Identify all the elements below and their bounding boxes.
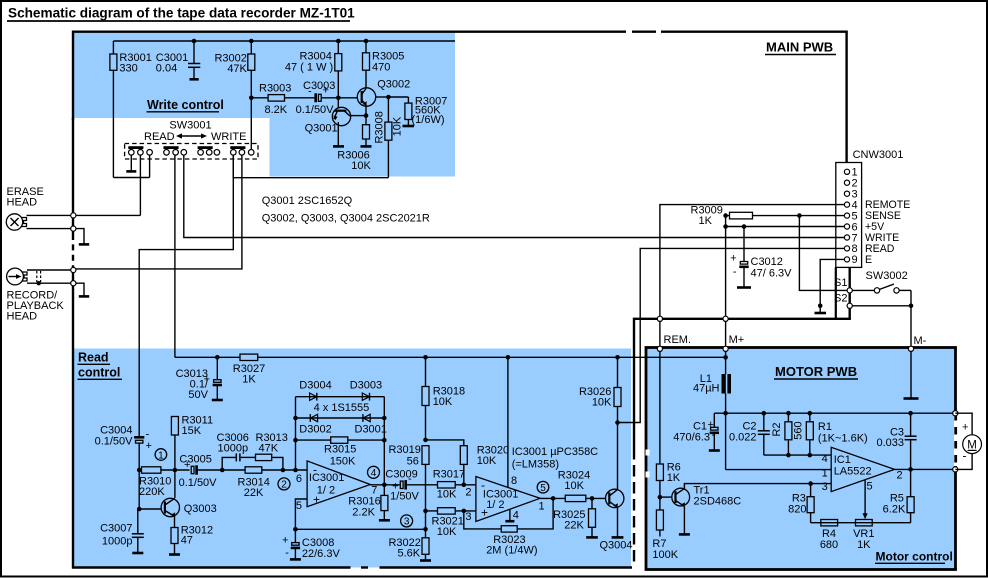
svg-text:C3005: C3005 (179, 454, 211, 466)
resistor R3016 with ground stub (348, 485, 390, 521)
svg-text:-: - (712, 429, 716, 441)
ground stub for erase head return (76, 229, 89, 245)
resistor R3025 with ground (553, 498, 598, 537)
svg-text:R3017: R3017 (433, 469, 465, 481)
wire R3008 bottom to SW3001 G4 (233, 155, 388, 178)
svg-text:2: 2 (281, 480, 287, 491)
svg-text:5: 5 (296, 500, 302, 512)
svg-text:-: - (285, 547, 289, 559)
wire erase head hot to SW3001 (76, 214, 140, 216)
junction S1 tap on SENSE wire (797, 213, 847, 290)
main pwb outline top edge with dashed break (73, 32, 847, 163)
M+ vertical from SENSE/+5V junctions down into motor pwb (723, 213, 744, 374)
diode D3002 (296, 414, 385, 435)
svg-text:220K: 220K (139, 486, 165, 498)
resistor R3026 (579, 357, 621, 422)
svg-text:1K: 1K (242, 374, 256, 386)
svg-text:8: 8 (511, 475, 517, 487)
diode feedback network left vertical (293, 397, 298, 473)
svg-text:control: control (78, 366, 120, 380)
svg-text:22/6.3V: 22/6.3V (302, 548, 341, 560)
resistor R3004 (285, 39, 342, 108)
capacitor C3009 (385, 469, 437, 503)
svg-text:5: 5 (867, 481, 873, 493)
svg-text:R3008: R3008 (373, 111, 385, 143)
motor pwb border box (646, 348, 956, 570)
svg-text:CNW3001: CNW3001 (853, 149, 904, 161)
svg-text:47 ( 1 W ): 47 ( 1 W ) (285, 62, 333, 74)
svg-text:+: + (323, 85, 329, 97)
M+ wire from L1 to motor rail and IC1 pin 1 (723, 394, 831, 470)
resistor R3020 (460, 445, 509, 485)
M- vertical wire into motor pwb to ground (904, 290, 927, 398)
svg-text:47µH: 47µH (693, 383, 720, 395)
resistor R3010 (137, 467, 190, 498)
ground stub under SW3001 contact 1a (126, 155, 136, 171)
svg-text:1: 1 (539, 501, 545, 513)
svg-text:1K: 1K (667, 472, 681, 484)
capacitor C3013 (176, 355, 223, 401)
node X junction R3018/R3019/R3020 (423, 438, 464, 446)
capacitor C3 (876, 411, 916, 469)
resistor R3017 (433, 469, 476, 501)
svg-text:820: 820 (788, 504, 806, 516)
switch SW3002 (852, 270, 911, 293)
title (7, 5, 355, 21)
record head shielded cable marks (37, 271, 41, 285)
node 5 circled (537, 481, 549, 494)
pin 8 supply wire into IC3001b (506, 355, 518, 487)
capacitor C3004 (95, 425, 152, 471)
node 3 circled (401, 515, 413, 528)
svg-text:47: 47 (181, 535, 193, 547)
S1 S2 connector stubs below CNW3001 (834, 267, 852, 319)
capacitor C1 (673, 413, 720, 450)
wire C3004 branch down to Q3003 base (137, 470, 142, 511)
diode D3001 (355, 414, 387, 435)
junction R3011/Q3003 collector on input wire (173, 435, 178, 498)
svg-text:LA5522: LA5522 (834, 466, 872, 478)
svg-text:+: + (730, 253, 736, 265)
wire pin4 REMOTE to REM vertical (660, 205, 845, 464)
svg-text:150K: 150K (330, 456, 356, 468)
resistor R3012 (169, 516, 213, 554)
capacitor C3001 (156, 39, 201, 80)
svg-text:D3001: D3001 (355, 424, 387, 436)
resistor R3014 (222, 467, 307, 499)
node C3003/R3004/Q3001/Q3002 (336, 96, 358, 101)
diode D3003 (350, 380, 382, 401)
wire pin8 READ down to R3026 node (618, 248, 845, 422)
resistor R3022 with ground (388, 511, 431, 561)
resistor R3009 on SENSE wire (691, 205, 845, 228)
svg-text:R1: R1 (818, 421, 832, 433)
resistor R3011 (171, 415, 213, 438)
svg-text:2: 2 (897, 470, 903, 482)
SW3001 contact group 1 (128, 148, 152, 156)
svg-text:-: - (308, 86, 312, 98)
svg-text:4 x 1S1555: 4 x 1S1555 (314, 402, 370, 414)
svg-text:D3002: D3002 (299, 424, 331, 436)
svg-text:Schematic diagram of the tape: Schematic diagram of the tape data recor… (8, 5, 355, 20)
resistor R3021 (423, 508, 476, 538)
svg-text:1/ 2: 1/ 2 (486, 499, 504, 511)
interconnect thick bus from CNW3001 down and across to bottom (634, 267, 850, 567)
main pwb outline left edge (solid/dashed through head connectors) (72, 118, 74, 569)
node 2 circled (278, 478, 290, 491)
svg-text:MOTOR PWB: MOTOR PWB (775, 364, 857, 379)
ground stub for record head return (76, 283, 89, 296)
motor supply rail (714, 411, 958, 416)
read control heading (78, 351, 123, 380)
+B top rail of write block (113, 40, 455, 42)
svg-text:3: 3 (822, 481, 828, 493)
capacitor C3012 (730, 227, 792, 288)
svg-text:1: 1 (158, 450, 164, 461)
svg-text:(1K~1.6K): (1K~1.6K) (818, 433, 868, 445)
wire pin7 WRITE long wire to SW3001 (184, 155, 845, 238)
svg-text:4: 4 (513, 510, 519, 522)
+5V rail of read block (175, 356, 726, 358)
svg-text:10K: 10K (437, 489, 457, 501)
svg-text:HEAD: HEAD (7, 197, 38, 209)
bottom wire R3 to R5 through R4 and VR1 (811, 522, 911, 524)
wire Tr1 collector to IC1 pin 3 (684, 481, 831, 488)
record head symbol (7, 268, 72, 322)
pin 5 wire and C3008 branch (293, 499, 426, 532)
svg-text:+: + (962, 422, 968, 434)
CNW3001 pin circles and numbers 1-9 (844, 167, 857, 267)
pin 4 ground stub of IC3001b (505, 510, 518, 522)
svg-text:(=LM358): (=LM358) (512, 459, 559, 471)
double arrow between READ and WRITE (176, 133, 207, 138)
resistor R3005 (363, 39, 405, 88)
svg-text:-: - (146, 429, 150, 441)
node 4 circled (368, 466, 380, 479)
svg-text:C3009: C3009 (385, 469, 417, 481)
svg-text:S2: S2 (834, 292, 847, 304)
svg-text:1000p: 1000p (102, 535, 133, 547)
svg-text:6.2K: 6.2K (883, 504, 906, 516)
svg-text:0.04: 0.04 (156, 63, 177, 75)
capacitor C3005 (179, 454, 223, 490)
svg-text:1K: 1K (699, 215, 713, 227)
SW3001 contact group 3 (198, 148, 220, 156)
diode feedback network right vertical (382, 397, 387, 487)
svg-text:(1/6W): (1/6W) (412, 114, 445, 126)
inductor L1 (693, 373, 731, 395)
svg-text:1: 1 (822, 468, 828, 480)
svg-text:22K: 22K (564, 520, 584, 532)
svg-text:56: 56 (407, 456, 419, 468)
svg-text:Q3002: Q3002 (377, 79, 410, 91)
resistor R6 (656, 462, 680, 511)
IC3001 device name note (512, 446, 598, 471)
output wire IC3001b pin 1 (539, 496, 566, 512)
svg-text:SW3002: SW3002 (866, 270, 908, 282)
resistor R3018 (422, 355, 465, 440)
resistor R3002 (214, 39, 254, 150)
transistor Q3004 (600, 489, 633, 551)
CNW3001 pin name labels (865, 199, 910, 266)
resistor R3027 in rail (233, 354, 265, 385)
resistor R1 (806, 411, 867, 455)
svg-text:IC3001: IC3001 (309, 472, 344, 484)
svg-text:5: 5 (540, 483, 546, 494)
wire SW3001 4b to record head (76, 155, 242, 269)
svg-text:Q3004: Q3004 (600, 540, 633, 552)
switch SW3001 dashed box (125, 144, 258, 160)
svg-text:15K: 15K (182, 425, 202, 437)
main pwb outline bottom edge (read region bottom, partly dashed) (72, 566, 632, 568)
diode D3004 (296, 380, 385, 401)
capacitor C3006 and resistor R3013 parallel branch (217, 432, 288, 470)
svg-text:M+: M+ (729, 334, 745, 346)
capacitor C3003 (296, 80, 339, 116)
svg-text:-: - (963, 449, 967, 463)
node C3006/R3014 split (220, 468, 225, 473)
resistor R3003 (251, 83, 314, 117)
Q3004 collector to READ node and R3026 (615, 355, 620, 490)
wire SW3001 2b down to read amp input chain (174, 155, 176, 357)
svg-text:-: - (733, 266, 737, 278)
svg-text:Motor control: Motor control (876, 550, 953, 564)
svg-text:2.2K: 2.2K (352, 507, 375, 519)
svg-text:5.6K: 5.6K (397, 548, 420, 560)
motor pwb blue region (646, 348, 956, 570)
svg-text:MAIN PWB: MAIN PWB (766, 40, 833, 55)
svg-text:Q3003: Q3003 (184, 503, 217, 515)
erase head connector circles on pwb edge (71, 213, 76, 231)
svg-text:8.2K: 8.2K (265, 104, 288, 116)
svg-text:Q3001: Q3001 (305, 123, 338, 135)
svg-text:10K: 10K (433, 396, 453, 408)
read control blue region (73, 349, 632, 568)
svg-text:1/ 2: 1/ 2 (317, 485, 335, 497)
svg-text:3: 3 (465, 511, 471, 523)
svg-text:47K: 47K (259, 443, 279, 455)
transistor type note text (262, 195, 430, 224)
capacitor C3008 (282, 529, 341, 560)
svg-text:3: 3 (404, 517, 410, 528)
wire SW3001 4a jog to C3004 branch (139, 155, 233, 436)
op-amp IC3001 second half (465, 477, 540, 524)
svg-text:C3007: C3007 (100, 523, 132, 535)
resistor R3019 (388, 444, 429, 511)
svg-text:4: 4 (371, 468, 377, 479)
svg-text:330: 330 (119, 63, 137, 75)
resistor R2 with rotated labels (771, 411, 805, 455)
svg-text:0.033: 0.033 (876, 437, 904, 449)
svg-text:D3003: D3003 (350, 380, 382, 392)
MOTOR PWB label (774, 364, 858, 379)
IC1 output pin 2 wire (895, 467, 958, 472)
svg-text:WRITE: WRITE (211, 131, 246, 143)
svg-text:680: 680 (820, 539, 838, 551)
output wire of IC3001a with node 7 (370, 485, 400, 497)
svg-text:0.1/50V: 0.1/50V (296, 104, 335, 116)
svg-text:6: 6 (296, 473, 302, 485)
write control heading (147, 98, 224, 112)
svg-text:50V: 50V (188, 389, 208, 401)
svg-text:E: E (865, 254, 872, 266)
wire C2/R2/R1 bottoms to IC1 pin 4 (764, 453, 831, 458)
svg-text:M-: M- (914, 335, 927, 347)
transistor Q3003 (138, 498, 217, 516)
potentiometer VR1 with wiper from IC1 pin 5 (853, 480, 874, 551)
record head connector circles on pwb edge (71, 267, 76, 285)
resistor R3 (788, 484, 814, 523)
svg-text:HEAD: HEAD (7, 311, 38, 323)
resistor R3008 vertical with rotated labels (373, 97, 403, 178)
svg-text:R3015: R3015 (324, 444, 356, 456)
Q3004 emitter to board edge (612, 507, 624, 537)
motor M with connections (955, 413, 981, 469)
svg-text:C3012: C3012 (751, 256, 783, 268)
transistor Q3002 (357, 79, 410, 116)
svg-text:0.022: 0.022 (729, 432, 757, 444)
svg-text:10K: 10K (592, 397, 612, 409)
svg-text:S1: S1 (834, 277, 847, 289)
resistor R3006 (337, 113, 371, 172)
svg-text:10K: 10K (564, 480, 584, 492)
transistor Tr1 (662, 485, 741, 508)
resistor R3024 (558, 470, 606, 502)
erase head symbol (6, 186, 71, 230)
svg-text:R3003: R3003 (259, 83, 291, 95)
Tr1 emitter ground stub (679, 506, 690, 534)
SW3001 contact group 2 (164, 148, 187, 156)
resistor R7 (652, 510, 678, 561)
svg-text:560: 560 (793, 421, 805, 439)
svg-text:10K: 10K (477, 455, 497, 467)
svg-text:9: 9 (852, 254, 858, 266)
svg-text:1/50V: 1/50V (390, 491, 419, 503)
svg-text:47K: 47K (227, 63, 247, 75)
svg-text:IC1: IC1 (834, 454, 851, 466)
resistor R4 (820, 520, 838, 552)
svg-text:1K: 1K (857, 539, 871, 551)
svg-text:SW3001: SW3001 (169, 120, 211, 132)
svg-text:Read: Read (78, 351, 109, 365)
svg-text:+: + (146, 440, 152, 452)
transistor Q3001 (305, 107, 366, 146)
svg-text:1000p: 1000p (218, 443, 249, 455)
svg-text:100K: 100K (652, 549, 678, 561)
svg-text:470: 470 (372, 62, 390, 74)
svg-text:2: 2 (465, 487, 471, 499)
svg-text:REM.: REM. (664, 334, 692, 346)
svg-text:R3019: R3019 (388, 444, 420, 456)
node 1 circled (155, 449, 167, 462)
node R3003 tap on R3002 leg (249, 96, 254, 101)
svg-text:Q3001 2SC1652Q: Q3001 2SC1652Q (262, 195, 353, 207)
svg-text:+: + (282, 535, 288, 547)
node Q3002 collector / R3007 / R3008 (386, 95, 408, 100)
MAIN PWB label (765, 40, 836, 55)
resistor R3001 (110, 41, 152, 178)
resistor R5 (883, 469, 914, 522)
svg-text:10K: 10K (392, 116, 404, 136)
svg-text:10K: 10K (437, 526, 457, 538)
REM. net label and connector circles (657, 316, 691, 351)
resistor R3007 with ground (403, 96, 448, 127)
svg-text:10K: 10K (351, 160, 371, 172)
wire pin9 E to ground and S2 (815, 259, 845, 313)
svg-text:R2: R2 (771, 422, 783, 436)
svg-text:2SD468C: 2SD468C (694, 496, 742, 508)
wire pin6 +5V to M+ vertical (726, 224, 845, 229)
svg-text:READ: READ (144, 131, 175, 143)
SW3001 contact group 4 (230, 148, 254, 156)
wire from R3001 to SW3001 contact 1c (113, 155, 149, 178)
capacitor C2 (729, 411, 770, 455)
svg-text:Q3002, Q3003, Q3004 2SC2021R: Q3002, Q3003, Q3004 2SC2021R (262, 212, 430, 224)
write control blue region (73, 31, 455, 177)
svg-text:0.1/50V: 0.1/50V (179, 477, 218, 489)
Motor control label (875, 550, 953, 564)
svg-text:4: 4 (822, 453, 828, 465)
svg-text:470/6.3: 470/6.3 (673, 432, 710, 444)
connector CNW3001 (836, 149, 904, 267)
wire S2 to M- vertical (852, 304, 913, 309)
feedback resistor R3023 (464, 498, 553, 556)
resistor R3015 (296, 437, 385, 468)
op-amp IC1 LA5522 (822, 447, 903, 493)
svg-text:22K: 22K (244, 487, 264, 499)
wire SW3001 1b down to erase head line (139, 155, 141, 215)
switch SW3001 labels (144, 120, 246, 144)
svg-text:2M (1/4W): 2M (1/4W) (486, 545, 537, 557)
svg-text:D3004: D3004 (299, 380, 331, 392)
svg-text:0.1/50V: 0.1/50V (95, 436, 134, 448)
svg-text:47/ 6.3V: 47/ 6.3V (751, 268, 793, 280)
diode array value 4 x 1S1555 (314, 402, 370, 414)
op-amp IC3001 first half (296, 461, 370, 512)
capacitor C3007 (100, 509, 144, 553)
svg-text:Write control: Write control (147, 98, 224, 112)
svg-text:IC3001 µPC358C: IC3001 µPC358C (512, 446, 598, 458)
